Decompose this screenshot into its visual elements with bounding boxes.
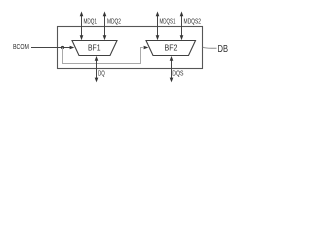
svg-text:DB: DB (218, 44, 229, 55)
wire MDQS1 (double-headed vertical) (156, 11, 160, 40)
svg-text:DQ: DQ (98, 68, 105, 77)
svg-text:DQS: DQS (172, 68, 183, 77)
buffer BF2 (146, 41, 196, 56)
data buffer chip outline (DB) (58, 27, 203, 69)
svg-text:BF1: BF1 (88, 43, 101, 53)
arrowhead into BF2 (144, 46, 149, 50)
wire BCOM input with arrow into BF1 (31, 46, 74, 50)
wire DQ (double-headed vertical) (95, 56, 99, 83)
svg-text:MDQS1: MDQS1 (160, 16, 176, 25)
wire MDQ2 (double-headed vertical) (103, 11, 107, 40)
wire MDQ1 (double-headed vertical) (80, 11, 84, 40)
wire BCOM branch to BF2 (63, 48, 143, 64)
buffer BF1 (72, 41, 117, 56)
svg-text:MDQS2: MDQS2 (184, 16, 202, 25)
svg-text:BF2: BF2 (165, 43, 178, 53)
svg-text:MDQ1: MDQ1 (84, 16, 98, 25)
svg-text:MDQ2: MDQ2 (107, 16, 121, 25)
svg-text:BCOM: BCOM (13, 42, 29, 51)
wire DQS (double-headed vertical) (170, 56, 174, 83)
node junction on BCOM wire (61, 46, 64, 49)
leader line to DB label (203, 47, 217, 48)
wire MDQS2 (double-headed vertical) (180, 11, 184, 40)
